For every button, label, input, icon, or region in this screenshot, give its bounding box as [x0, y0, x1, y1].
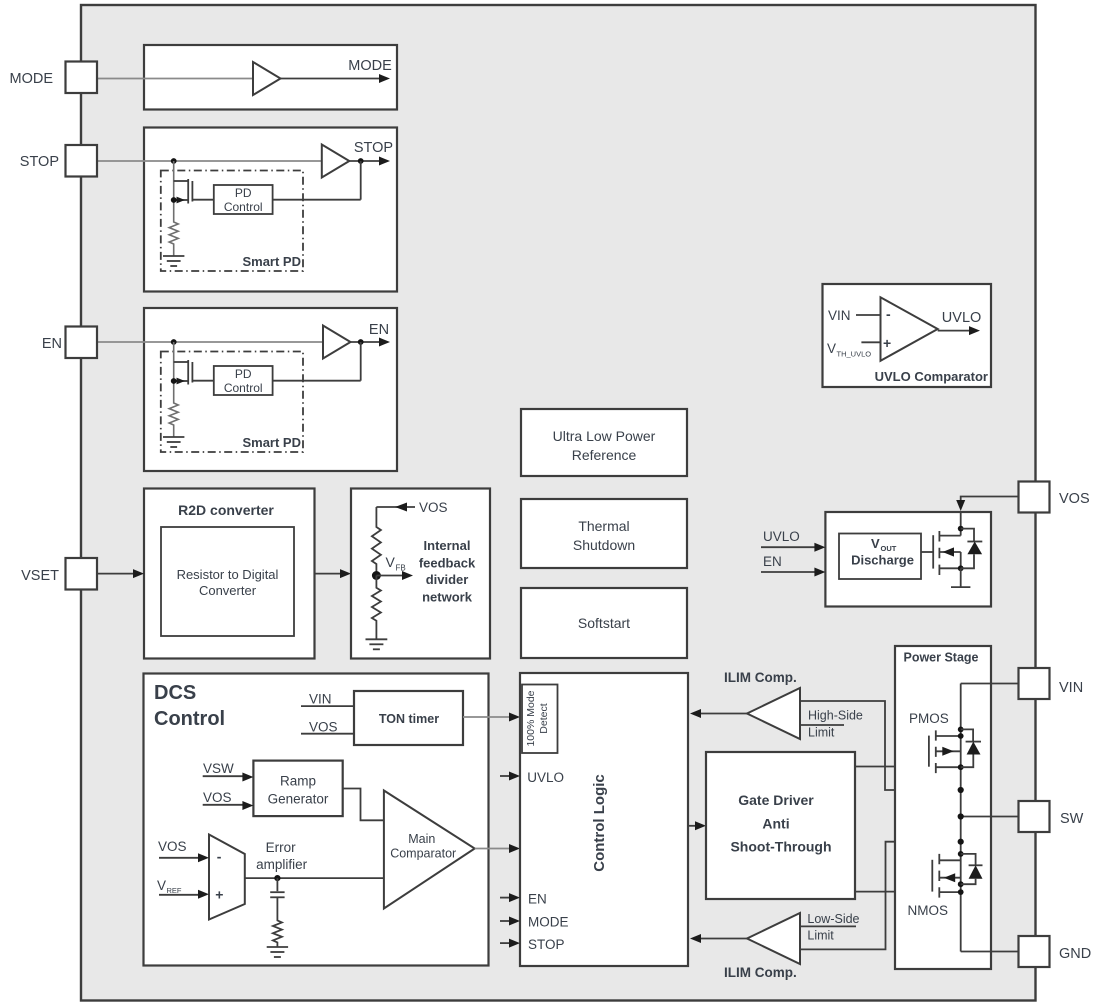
svg-text:Error: Error [266, 840, 297, 855]
svg-text:ILIM Comp.: ILIM Comp. [724, 670, 797, 685]
svg-text:network: network [422, 590, 473, 605]
svg-text:V: V [157, 878, 166, 893]
svg-text:Reference: Reference [572, 447, 637, 463]
svg-text:SW: SW [1060, 811, 1084, 827]
svg-text:Resistor to Digital: Resistor to Digital [177, 567, 279, 582]
svg-text:+: + [215, 887, 223, 903]
svg-text:EN: EN [369, 322, 389, 338]
svg-text:STOP: STOP [20, 154, 59, 170]
svg-text:+: + [883, 335, 891, 351]
svg-text:Converter: Converter [199, 583, 257, 598]
svg-text:Ramp: Ramp [280, 774, 316, 789]
svg-text:PD: PD [235, 186, 252, 200]
svg-text:Low-Side: Low-Side [807, 912, 859, 926]
svg-text:VOS: VOS [1059, 491, 1090, 507]
svg-text:V: V [871, 536, 880, 551]
svg-text:R2D converter: R2D converter [178, 502, 274, 518]
svg-text:VSW: VSW [203, 761, 234, 776]
svg-text:PMOS: PMOS [909, 711, 949, 726]
svg-text:VOS: VOS [203, 790, 232, 805]
svg-text:100% Mode: 100% Mode [525, 690, 537, 746]
svg-text:EN: EN [42, 336, 62, 352]
svg-text:Control: Control [154, 708, 225, 730]
svg-text:Internal: Internal [424, 538, 471, 553]
svg-text:UVLO Comparator: UVLO Comparator [875, 369, 988, 384]
svg-text:amplifier: amplifier [256, 857, 308, 872]
svg-text:Shoot-Through: Shoot-Through [730, 839, 831, 855]
svg-text:Anti: Anti [762, 816, 789, 832]
svg-text:ILIM Comp.: ILIM Comp. [724, 965, 797, 980]
svg-text:Discharge: Discharge [851, 553, 914, 568]
svg-text:Control: Control [224, 200, 263, 214]
svg-text:DCS: DCS [154, 682, 196, 704]
svg-text:VIN: VIN [1059, 680, 1083, 696]
svg-text:Main: Main [408, 832, 435, 846]
svg-text:Comparator: Comparator [390, 847, 456, 861]
svg-text:feedback: feedback [419, 556, 476, 571]
svg-text:VIN: VIN [309, 692, 332, 707]
svg-text:High-Side: High-Side [808, 709, 863, 723]
svg-text:MODE: MODE [528, 915, 569, 930]
svg-text:NMOS: NMOS [908, 903, 949, 918]
svg-text:-: - [886, 306, 891, 322]
svg-text:Ultra Low Power: Ultra Low Power [553, 428, 656, 444]
svg-text:Generator: Generator [268, 792, 329, 807]
svg-text:Detect: Detect [538, 703, 550, 733]
svg-text:GND: GND [1059, 946, 1091, 962]
svg-text:Shutdown: Shutdown [573, 537, 635, 553]
svg-text:REF: REF [167, 886, 182, 895]
svg-text:UVLO: UVLO [527, 770, 564, 785]
svg-text:STOP: STOP [354, 140, 393, 156]
svg-text:V: V [827, 341, 836, 356]
svg-text:VOS: VOS [419, 500, 448, 515]
svg-text:EN: EN [528, 892, 547, 907]
svg-text:Limit: Limit [808, 726, 835, 740]
svg-text:UVLO: UVLO [763, 529, 800, 544]
svg-text:STOP: STOP [528, 937, 565, 952]
svg-text:VIN: VIN [828, 308, 851, 323]
svg-text:V: V [386, 554, 396, 570]
svg-text:TH_UVLO: TH_UVLO [837, 350, 872, 359]
svg-text:Limit: Limit [807, 929, 834, 943]
svg-text:Control Logic: Control Logic [591, 774, 608, 872]
svg-text:VSET: VSET [21, 568, 59, 584]
svg-text:Gate Driver: Gate Driver [738, 792, 814, 808]
svg-text:divider: divider [426, 572, 469, 587]
svg-text:Smart PD: Smart PD [242, 254, 301, 269]
svg-text:MODE: MODE [10, 71, 54, 87]
svg-text:EN: EN [763, 554, 782, 569]
svg-text:UVLO: UVLO [942, 310, 982, 326]
svg-text:Power Stage: Power Stage [903, 651, 978, 665]
svg-text:Softstart: Softstart [578, 615, 630, 631]
svg-text:TON timer: TON timer [379, 712, 439, 726]
svg-text:VOS: VOS [309, 720, 338, 735]
svg-text:MODE: MODE [348, 58, 392, 74]
svg-text:FB: FB [396, 564, 406, 573]
svg-text:VOS: VOS [158, 839, 187, 854]
svg-text:Thermal: Thermal [578, 518, 629, 534]
svg-text:-: - [217, 849, 222, 865]
